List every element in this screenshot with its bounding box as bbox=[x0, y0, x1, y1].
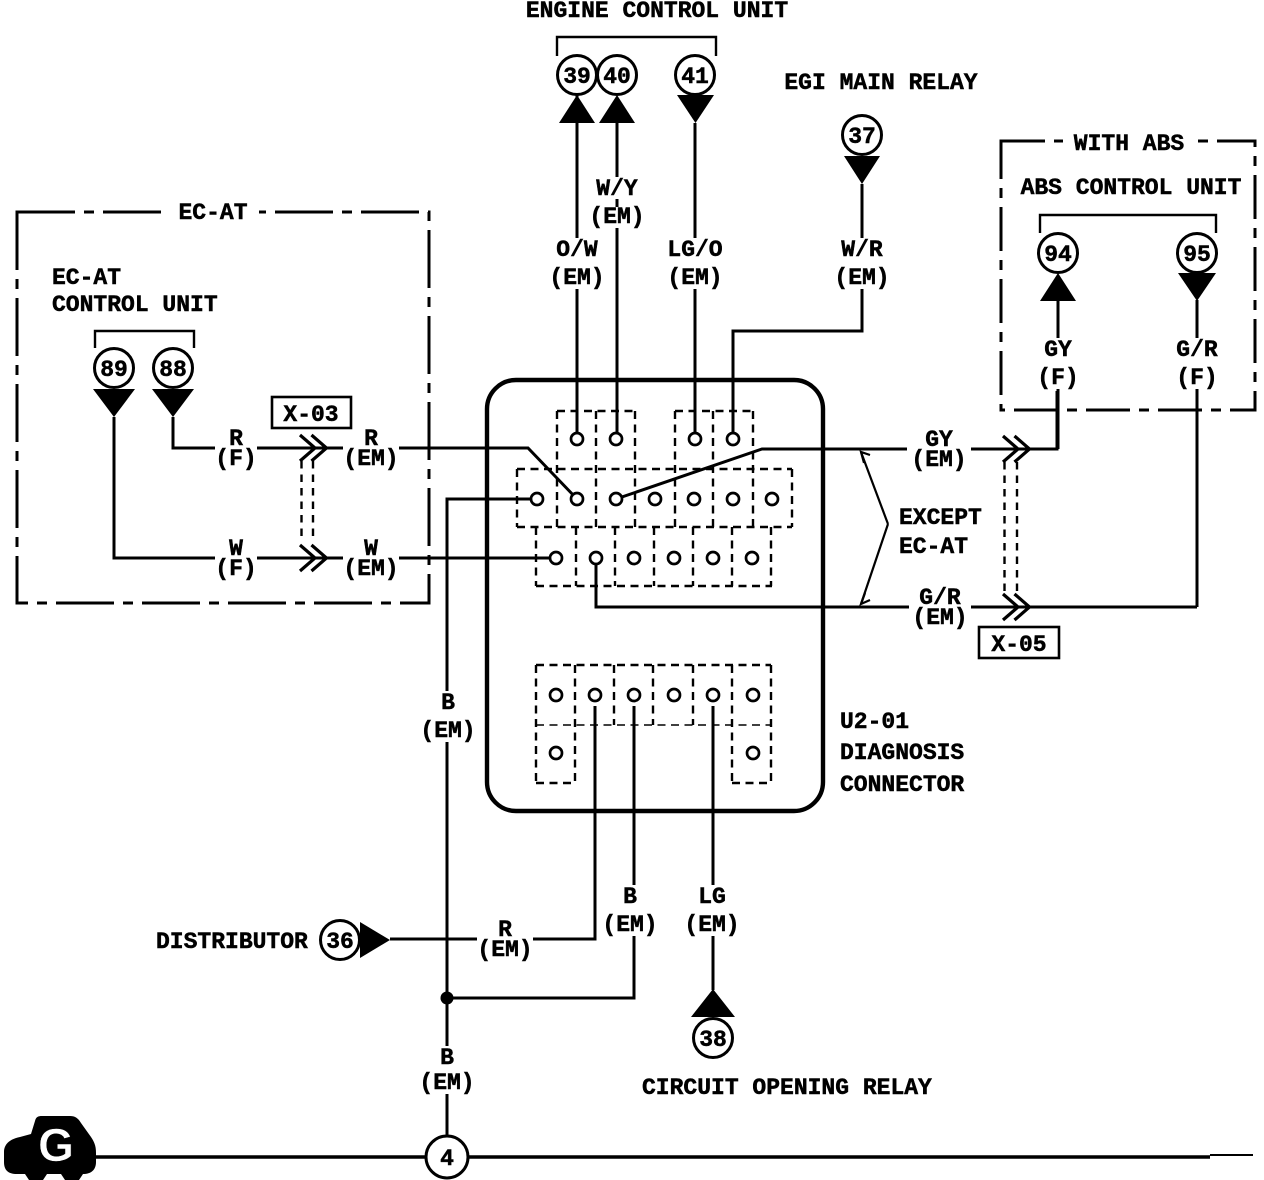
svg-text:88: 88 bbox=[159, 357, 187, 383]
label X-03 bbox=[272, 397, 351, 428]
label R (EM) distributor bbox=[477, 918, 533, 960]
label X-05 bbox=[979, 627, 1059, 658]
svg-text:B: B bbox=[440, 1045, 454, 1071]
label B (EM) lower bbox=[604, 885, 656, 936]
svg-text:G: G bbox=[38, 1119, 74, 1171]
label GY (EM) bbox=[907, 428, 971, 470]
arrow into terminal 94 bbox=[1040, 273, 1076, 301]
wire GY (F) from 94 down bbox=[1057, 300, 1060, 449]
label EC-AT box title bbox=[168, 197, 259, 224]
svg-text:CIRCUIT OPENING RELAY: CIRCUIT OPENING RELAY bbox=[642, 1075, 932, 1101]
label O/W (EM) bbox=[548, 238, 606, 289]
U2-01 pins row C bbox=[550, 552, 562, 564]
WITH ABS condition dashed box bbox=[1001, 141, 1255, 410]
terminal 41 engine control unit bbox=[676, 56, 715, 95]
label LG/O (EM) bbox=[664, 238, 726, 289]
arrow out of terminal 37 bbox=[844, 156, 880, 184]
wire ground bus thin end segment bbox=[1210, 1154, 1253, 1156]
svg-text:(F): (F) bbox=[215, 556, 256, 582]
svg-text:95: 95 bbox=[1183, 242, 1211, 268]
terminal 94 ABS control unit bbox=[1039, 234, 1078, 273]
wire R (F)/R (EM) from 88 to pin B2 bbox=[173, 417, 577, 499]
terminal 38 circuit opening relay bbox=[694, 1019, 733, 1058]
svg-text:39: 39 bbox=[563, 64, 591, 90]
connector X-05 dashed link bbox=[1003, 462, 1005, 592]
svg-text:(EM): (EM) bbox=[549, 265, 604, 291]
svg-text:(EM): (EM) bbox=[343, 556, 398, 582]
svg-text:ENGINE CONTROL UNIT: ENGINE CONTROL UNIT bbox=[526, 0, 788, 24]
wire R (EM) from distributor 36 to pin D2 bbox=[390, 706, 595, 939]
U2-01 pins row D bbox=[550, 689, 562, 701]
label GY (F) bbox=[1034, 338, 1082, 389]
svg-text:(EM): (EM) bbox=[834, 265, 889, 291]
arrow out of terminal 89 bbox=[93, 389, 135, 417]
wire W/R (EM) from 37 to pin A4 bbox=[733, 184, 862, 439]
svg-text:LG: LG bbox=[698, 884, 726, 910]
label WITH ABS bbox=[1063, 128, 1196, 155]
wire B (EM) from pin B1 down to ground circle 4 bbox=[447, 499, 530, 1136]
wire ground bus right segment bbox=[468, 1155, 1210, 1158]
label G/R (F) bbox=[1173, 338, 1221, 389]
label R (EM) bbox=[343, 427, 399, 469]
label W (EM) bbox=[343, 537, 399, 579]
svg-text:B: B bbox=[441, 690, 455, 716]
svg-text:(EM): (EM) bbox=[684, 912, 739, 938]
junction node B (EM) bbox=[441, 992, 454, 1005]
callout arrow to G/R (EM) wire bbox=[861, 524, 888, 604]
svg-text:DIAGNOSIS: DIAGNOSIS bbox=[840, 740, 964, 766]
label G/R (EM) bbox=[909, 586, 971, 628]
bracket engine control unit pins 39-41 bbox=[557, 37, 716, 56]
connector X-03 dashed link bbox=[300, 461, 302, 540]
svg-text:38: 38 bbox=[699, 1027, 727, 1053]
U2-01 pins row B bbox=[531, 493, 543, 505]
terminal 89 EC-AT control unit bbox=[95, 349, 134, 388]
svg-text:O/W: O/W bbox=[556, 237, 598, 263]
ground symbol G (body ground) bbox=[4, 1116, 96, 1180]
EC-AT condition dashed box bbox=[17, 212, 429, 603]
arrow into terminal 40 bbox=[599, 95, 635, 123]
svg-text:94: 94 bbox=[1044, 242, 1072, 268]
label W (F) bbox=[215, 537, 257, 579]
svg-text:(EM): (EM) bbox=[343, 446, 398, 472]
svg-text:(EM): (EM) bbox=[911, 447, 966, 473]
svg-text:ABS CONTROL UNIT: ABS CONTROL UNIT bbox=[1021, 175, 1242, 201]
svg-text:(F): (F) bbox=[1176, 365, 1217, 391]
label LG (EM) bbox=[682, 885, 742, 936]
svg-text:(EM): (EM) bbox=[589, 204, 644, 230]
wire B (EM) from junction to pin D3 bbox=[447, 706, 634, 998]
U2-01 pins row E bbox=[550, 747, 562, 759]
terminal 37 EGI main relay bbox=[843, 116, 882, 155]
svg-text:89: 89 bbox=[100, 357, 128, 383]
svg-text:EC-AT: EC-AT bbox=[178, 200, 247, 226]
arrow out of terminal 41 bbox=[677, 95, 714, 123]
svg-text:EC-AT: EC-AT bbox=[52, 265, 121, 291]
svg-text:41: 41 bbox=[681, 64, 709, 90]
svg-text:LG/O: LG/O bbox=[667, 237, 722, 263]
svg-text:(EM): (EM) bbox=[419, 1070, 474, 1096]
terminal 40 engine control unit bbox=[598, 56, 637, 95]
label B (EM) upper bbox=[421, 691, 475, 742]
wire ground bus left segment bbox=[96, 1155, 426, 1158]
bracket EC-AT control unit pins 89-88 bbox=[95, 331, 194, 348]
arrow into terminal 38 bbox=[691, 989, 735, 1017]
wire G/R (F) from 95 down bbox=[1196, 300, 1199, 607]
svg-text:DISTRIBUTOR: DISTRIBUTOR bbox=[156, 929, 308, 955]
bracket ABS control unit pins 94-95 bbox=[1040, 215, 1216, 233]
terminal 39 engine control unit bbox=[558, 56, 597, 95]
arrow out of terminal 88 bbox=[152, 389, 194, 417]
callout arrow to GY (EM) wire bbox=[861, 452, 888, 524]
svg-text:W/R: W/R bbox=[841, 237, 883, 263]
svg-text:B: B bbox=[623, 884, 637, 910]
connector X-03 chevrons on W wire bbox=[300, 545, 315, 571]
arrow out of terminal 95 bbox=[1178, 273, 1216, 301]
terminal 95 ABS control unit bbox=[1178, 234, 1217, 273]
label W/R (EM) bbox=[833, 238, 891, 289]
wire G/R (EM) from pin C2 to ABS G/R (F) bbox=[596, 563, 1197, 607]
svg-text:U2-01: U2-01 bbox=[840, 709, 909, 735]
svg-text:(EM): (EM) bbox=[420, 718, 475, 744]
svg-text:W/Y: W/Y bbox=[596, 176, 638, 202]
wire O/W (EM) from 39 to pin A1 bbox=[576, 95, 579, 439]
svg-text:EC-AT: EC-AT bbox=[899, 534, 968, 560]
svg-text:37: 37 bbox=[848, 124, 876, 150]
svg-text:(EM): (EM) bbox=[912, 605, 967, 631]
svg-text:(F): (F) bbox=[1037, 365, 1078, 391]
svg-text:40: 40 bbox=[603, 64, 631, 90]
U2-01 pins row A bbox=[571, 433, 583, 445]
label B (EM) ground bbox=[422, 1046, 472, 1094]
connector X-03 chevrons on R wire bbox=[300, 435, 315, 461]
terminal 36 distributor bbox=[321, 921, 360, 960]
svg-text:CONTROL UNIT: CONTROL UNIT bbox=[52, 292, 218, 318]
svg-text:(EM): (EM) bbox=[477, 937, 532, 963]
ground joint 4 bbox=[426, 1136, 468, 1178]
svg-text:(F): (F) bbox=[215, 446, 256, 472]
wire W (F)/W (EM) from 89 to pin C1 bbox=[114, 417, 556, 558]
svg-text:EXCEPT: EXCEPT bbox=[899, 505, 982, 531]
svg-text:(EM): (EM) bbox=[667, 265, 722, 291]
connector X-05 chevrons on GY wire bbox=[1003, 436, 1018, 462]
wire LG/O (EM) from 41 to pin A3 bbox=[694, 123, 697, 439]
svg-text:36: 36 bbox=[326, 929, 354, 955]
label R (F) bbox=[215, 427, 257, 469]
wire GY (EM) from pin B3 to ABS GY (F) bbox=[616, 391, 1057, 499]
svg-text:G/R: G/R bbox=[1176, 337, 1218, 363]
arrow into terminal 39 bbox=[559, 95, 595, 123]
svg-text:EGI MAIN RELAY: EGI MAIN RELAY bbox=[784, 70, 977, 96]
svg-text:CONNECTOR: CONNECTOR bbox=[840, 772, 964, 798]
connector X-05 chevrons on G/R wire bbox=[1003, 594, 1018, 620]
svg-text:GY: GY bbox=[1044, 337, 1072, 363]
terminal 88 EC-AT control unit bbox=[154, 349, 193, 388]
svg-text:4: 4 bbox=[440, 1146, 454, 1172]
svg-text:X-05: X-05 bbox=[991, 632, 1046, 658]
U2-01 connector lower pin group dashed boxes bbox=[536, 664, 771, 666]
svg-text:(EM): (EM) bbox=[602, 912, 657, 938]
svg-text:WITH ABS: WITH ABS bbox=[1074, 131, 1185, 157]
svg-text:X-03: X-03 bbox=[283, 402, 338, 428]
arrow out of terminal 36 bbox=[360, 922, 390, 958]
U2-01 diagnosis connector outline bbox=[487, 380, 823, 811]
wire W/Y (EM) from 40 to pin A2 bbox=[616, 123, 619, 439]
wire LG (EM) from pin D5 to circuit opening relay 38 bbox=[712, 706, 715, 990]
label W/Y (EM) bbox=[588, 177, 646, 199]
U2-01 connector upper pin group dashed boxes bbox=[557, 410, 635, 412]
